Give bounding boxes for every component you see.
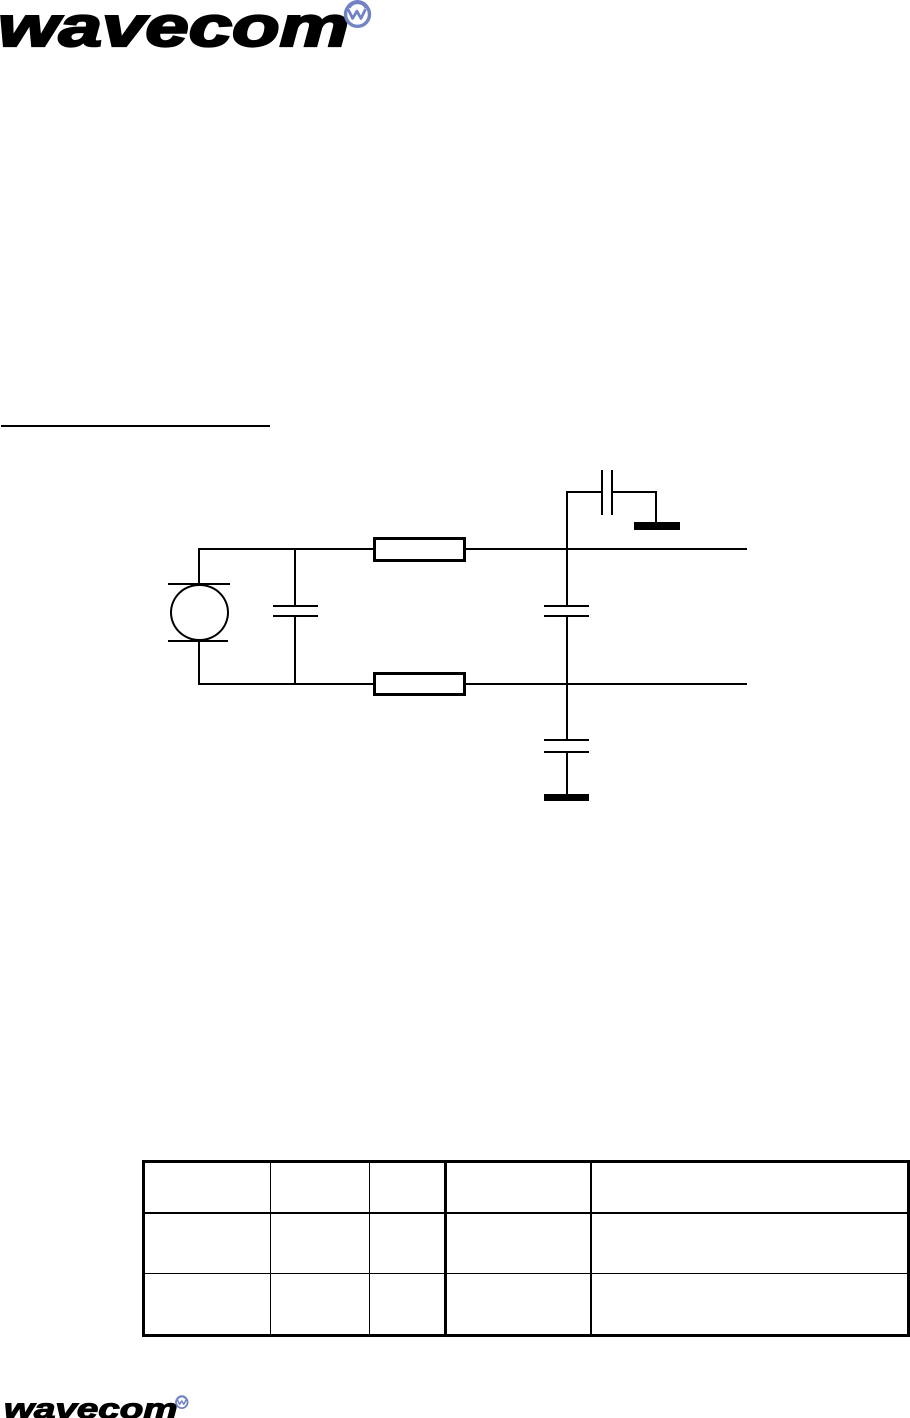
Wavecom logo (header): [0, 0, 400, 70]
capacitor C4 plate 2: [544, 751, 589, 753]
microphone MK1 bottom bar: [168, 640, 228, 642]
table column divider 2: [369, 1162, 370, 1335]
svg-text:wavecom: wavecom: [0, 0, 349, 59]
capacitor C2 plate 2: [544, 615, 589, 617]
capacitor C4 plate 1: [544, 739, 589, 741]
wire: bottom rail: [198, 683, 747, 685]
wire: top rail: [198, 548, 747, 550]
wire: left vertical lower (source bottom lead): [198, 640, 200, 684]
wire: node N1 vertical middle (C2 to C4): [566, 617, 568, 740]
capacitor C3 plate 2: [611, 470, 613, 515]
capacitor C1 top lead: [294, 548, 296, 605]
table row divider 2: [144, 1273, 908, 1274]
capacitor C3 right lead: [613, 491, 656, 493]
capacitor C1 plate 2: [273, 615, 319, 617]
ground GND2 bar: [544, 794, 589, 802]
ground GND1 bar: [634, 522, 680, 530]
heading underline: [1, 425, 270, 427]
table column divider 1: [270, 1162, 271, 1335]
table column divider 3: [444, 1162, 446, 1335]
capacitor C3 plate 1: [601, 470, 603, 515]
table column divider 4: [590, 1162, 592, 1335]
Wavecom logo (footer): [0, 1390, 210, 1418]
table outer border: [142, 1160, 910, 1337]
microphone MK1 top bar: [168, 583, 230, 585]
table row divider 1: [144, 1212, 908, 1215]
capacitor C1 bottom lead: [294, 617, 296, 684]
capacitor C3 left lead: [566, 491, 601, 493]
microphone MK1 circle: [170, 584, 229, 641]
capacitor C1 plate 1: [273, 605, 319, 607]
wire: node N1 vertical lower (C4 to ground): [566, 753, 568, 794]
resistor R2: [373, 672, 466, 696]
wire: left vertical upper (source top lead): [198, 548, 200, 584]
wire: C3 down lead: [655, 491, 657, 523]
svg-text:wavecom: wavecom: [4, 1393, 178, 1418]
wire: node N1 vertical upper (to top rail and C2): [566, 491, 568, 605]
capacitor C2 plate 1: [544, 605, 589, 607]
resistor R1: [373, 537, 466, 562]
